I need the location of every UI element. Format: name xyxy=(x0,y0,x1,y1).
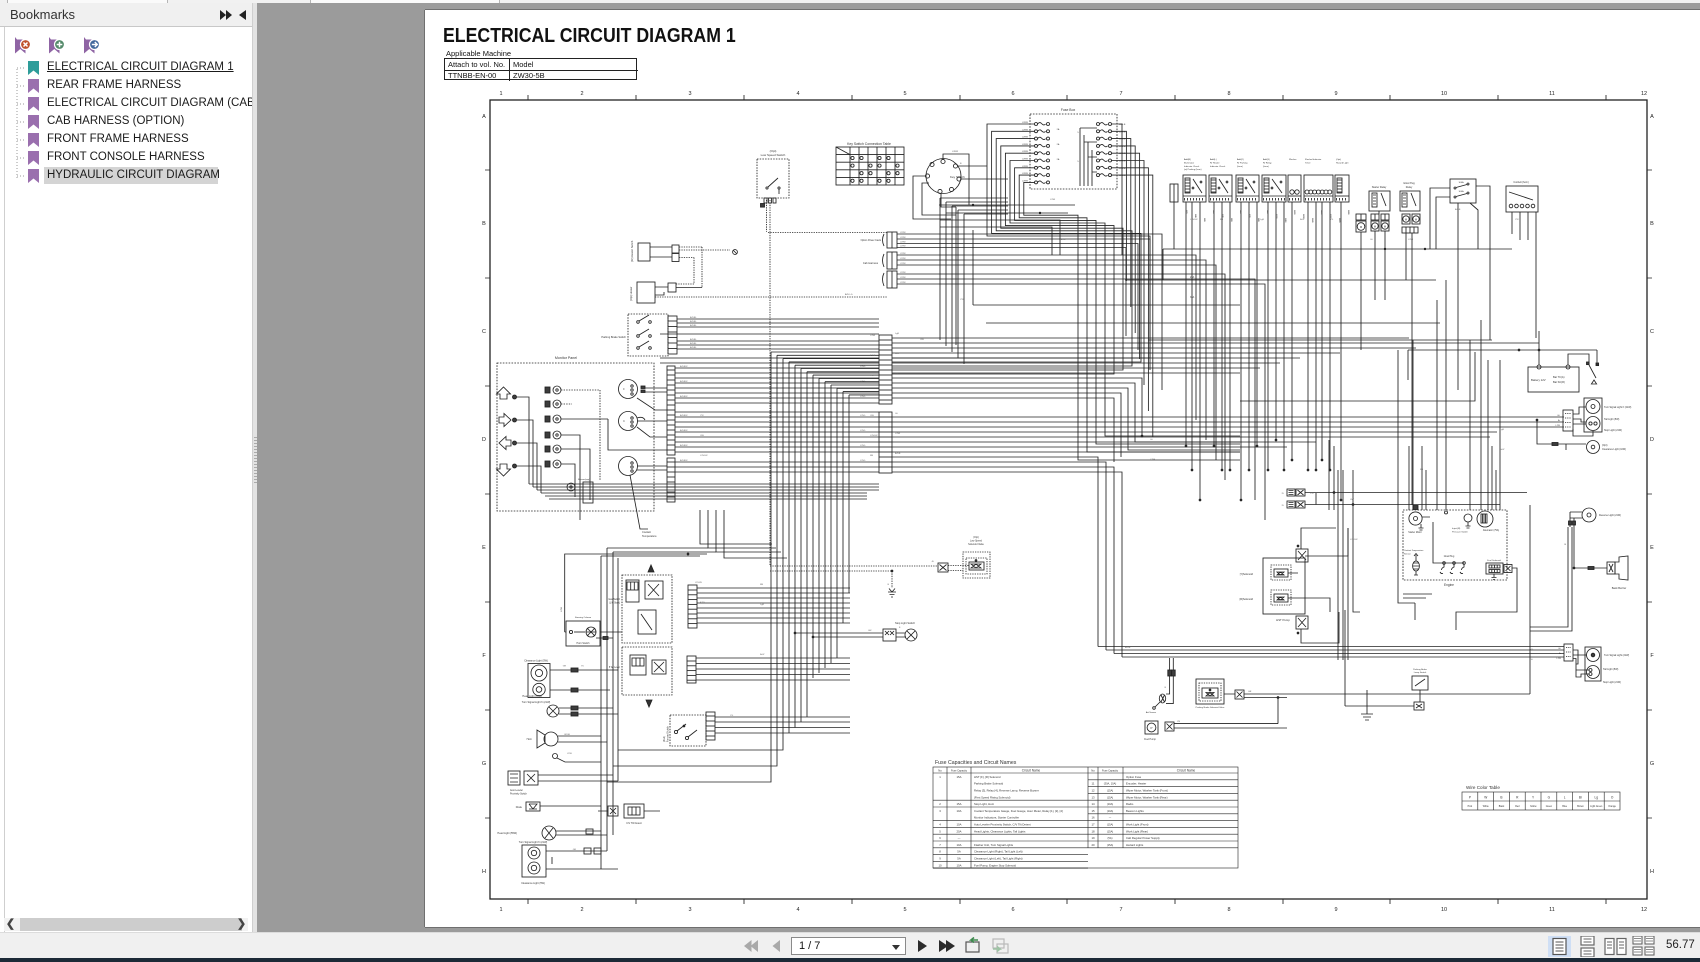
svg-text:Br: Br xyxy=(1558,419,1560,422)
svg-text:Parking Brake Switch: Parking Brake Switch xyxy=(601,335,626,339)
svg-text:10A: 10A xyxy=(957,823,962,827)
svg-text:(15A): (15A) xyxy=(1107,823,1113,827)
switch SW1 (Opt) Low Speed Switch xyxy=(757,149,789,198)
svg-text:Battery 12V: Battery 12V xyxy=(1531,378,1546,382)
auto leveler proximity switch xyxy=(508,771,618,796)
svg-text:(First Speed Rising Solenoid): (First Speed Rising Solenoid) xyxy=(974,795,1010,799)
svg-text:12: 12 xyxy=(1641,91,1647,97)
frame ruler labels xyxy=(482,91,1654,913)
svg-text:A25B: A25B xyxy=(1125,646,1131,649)
svg-text:H: H xyxy=(1650,869,1654,875)
ground G xyxy=(1361,690,1373,720)
svg-text:F: F xyxy=(1650,653,1654,659)
svg-text:(Opt): (Opt) xyxy=(1602,444,1608,447)
svg-text:Encoder, Heater: Encoder, Heater xyxy=(1126,782,1146,786)
svg-text:A25BL: A25BL xyxy=(690,324,697,327)
svg-text:Glow Plug: Glow Plug xyxy=(1403,182,1415,185)
svg-text:Back Buzzer: Back Buzzer xyxy=(1612,586,1627,590)
svg-text:Add(L): Add(L) xyxy=(1210,158,1217,161)
svg-text:LgR: LgR xyxy=(895,333,899,335)
rear combination lamp box xyxy=(1573,398,1631,436)
monitor hour meter xyxy=(619,457,638,476)
svg-text:Green: Green xyxy=(1546,805,1553,808)
wires monitor strips to harness xyxy=(675,365,879,472)
wire labels under relays xyxy=(1185,210,1350,223)
svg-text:E: E xyxy=(482,545,486,551)
svg-text:LgR: LgR xyxy=(1260,219,1264,221)
solenoid F HST xyxy=(1240,590,1291,605)
svg-text:Wire Color Table: Wire Color Table xyxy=(1466,785,1500,790)
svg-text:Parking Brake: Parking Brake xyxy=(1413,668,1428,671)
svg-text:(5A): (5A) xyxy=(1108,836,1113,840)
svg-text:2: 2 xyxy=(580,907,583,913)
parking brake switch SW3 xyxy=(601,314,677,356)
svg-text:White: White xyxy=(1483,805,1490,808)
svg-text:(30A, 10A): (30A, 10A) xyxy=(1104,782,1117,786)
svg-text:7: 7 xyxy=(939,843,941,847)
svg-text:Fuse Capacities and Circuit Na: Fuse Capacities and Circuit Names xyxy=(935,760,1017,766)
svg-text:YG: YG xyxy=(1330,219,1333,221)
svg-text:Cab Harness: Cab Harness xyxy=(863,261,879,265)
svg-text:15: 15 xyxy=(1091,809,1095,813)
svg-text:9: 9 xyxy=(1334,91,1337,97)
svg-text:L25GW: L25GW xyxy=(1190,219,1198,221)
svg-text:3: 3 xyxy=(939,809,941,813)
wires into engine xyxy=(1398,280,1500,620)
forward switch (4wd) xyxy=(664,715,706,746)
svg-text:L: L xyxy=(1564,796,1566,800)
solenoid valve low speed (opt) xyxy=(770,536,990,578)
svg-text:A25B: A25B xyxy=(1455,208,1461,211)
svg-text:(15A): (15A) xyxy=(1107,843,1113,847)
monitor arrow indicators xyxy=(497,387,517,476)
wires fuse box right staircase xyxy=(1112,124,1153,437)
relay R1 Add(R) xyxy=(1183,158,1206,202)
svg-text:M: M xyxy=(1374,225,1376,229)
svg-text:3: 3 xyxy=(688,91,691,97)
svg-text:Bat TC(A): Bat TC(A) xyxy=(1553,375,1565,379)
vertical bundle right of HST xyxy=(1329,440,1360,660)
svg-text:Low Speed Switch: Low Speed Switch xyxy=(761,153,786,157)
svg-text:16: 16 xyxy=(1091,816,1095,820)
svg-text:5: 5 xyxy=(939,829,941,833)
svg-text:B: B xyxy=(482,221,486,227)
lamp reverse light (21W) xyxy=(1565,508,1622,568)
svg-text:A24B: A24B xyxy=(1221,214,1224,218)
C/V tilt detent xyxy=(598,804,660,825)
svg-text:Head Lights, Clearance Lights,: Head Lights, Clearance Lights, Tail Ligh… xyxy=(974,829,1026,833)
svg-text:A217B: A217B xyxy=(1338,218,1341,223)
harness connector strip CN-A xyxy=(879,335,892,404)
wires battery bus xyxy=(1408,331,1597,380)
svg-text:Hazard Lights: Hazard Lights xyxy=(1126,843,1144,847)
svg-text:L25R: L25R xyxy=(1408,239,1414,241)
back buzzer BZ1 xyxy=(1573,556,1628,590)
svg-text:(horn): (horn) xyxy=(1263,165,1269,168)
svg-text:YG: YG xyxy=(730,715,733,717)
engine assembly xyxy=(1403,510,1507,587)
svg-text:2: 2 xyxy=(939,802,941,806)
relay R2 Add(L) xyxy=(1209,158,1232,202)
wire bundle main ring (monitor harness) xyxy=(607,352,879,782)
alternator G1 xyxy=(1477,511,1499,532)
svg-text:(Opt) Heater: (Opt) Heater xyxy=(629,286,633,301)
svg-text:20A: 20A xyxy=(957,829,962,833)
starter motor M4 xyxy=(1408,506,1430,535)
parking brake solenoid valve xyxy=(1196,679,1530,709)
svg-text:Engine: Engine xyxy=(1444,583,1454,587)
svg-text:Turn Signal Light fr (21W): Turn Signal Light fr (21W) xyxy=(1604,406,1631,409)
fuse box internal bus xyxy=(1080,128,1097,186)
svg-text:GL: GL xyxy=(1150,439,1154,441)
wires monitor arrows xyxy=(516,397,541,493)
glow plugs xyxy=(1433,522,1465,574)
svg-text:L25GW: L25GW xyxy=(700,455,708,457)
svg-text:Turn Signal Light fr (21W): Turn Signal Light fr (21W) xyxy=(522,701,551,704)
svg-text:A25BW: A25BW xyxy=(680,444,688,447)
svg-text:M: M xyxy=(1384,225,1386,229)
connector strip turn signal xyxy=(688,585,697,628)
svg-text:Clearance Light (Left), Tail L: Clearance Light (Left), Tail Light (Righ… xyxy=(974,857,1023,861)
svg-text:A215B: A215B xyxy=(1320,210,1323,215)
svg-text:10A: 10A xyxy=(957,843,962,847)
wire bundle monitor lower drops xyxy=(601,510,787,558)
svg-text:D: D xyxy=(482,437,486,443)
svg-text:GW: GW xyxy=(868,630,872,632)
svg-text:11: 11 xyxy=(1549,91,1555,97)
bus wire y249 xyxy=(1163,248,1512,280)
lamp turn signal bottom xyxy=(519,841,618,885)
wires turn signal strip xyxy=(695,582,850,623)
relay R7 (Opt) xyxy=(1335,158,1349,202)
svg-text:100A: 100A xyxy=(1458,181,1464,184)
svg-text:G: G xyxy=(1650,761,1654,767)
svg-text:F: F xyxy=(623,388,625,391)
svg-text:Relay [3], Relay [4], Reverse: Relay [3], Relay [4], Reverse Lamp, Reve… xyxy=(974,789,1039,793)
lamp head light (55W) bottom xyxy=(497,826,607,840)
svg-text:Head Light (55W): Head Light (55W) xyxy=(497,832,517,835)
svg-text:Add(3): Add(3) xyxy=(1263,158,1270,161)
combination relay block (Conbelt) xyxy=(1506,181,1538,338)
svg-text:A21B: A21B xyxy=(1194,214,1197,218)
svg-text:Glow Plug: Glow Plug xyxy=(1444,556,1455,558)
svg-text:B: B xyxy=(899,627,901,629)
svg-text:Hazard Light: Hazard Light xyxy=(1336,161,1349,164)
diode D1 xyxy=(516,802,601,811)
svg-text:A210B: A210B xyxy=(1275,214,1278,219)
wires cab harness to right xyxy=(897,232,1265,520)
svg-text:L2RW: L2RW xyxy=(900,272,906,274)
svg-text:A23B: A23B xyxy=(1212,210,1215,214)
fuel pump P1 xyxy=(1144,698,1287,742)
svg-text:GL: GL xyxy=(895,413,899,415)
wires fuse box left nest xyxy=(892,124,1240,460)
svg-text:(15A): (15A) xyxy=(1107,789,1113,793)
svg-text:Coolant Temperature Gauge, Fue: Coolant Temperature Gauge, Fuel Gauge, H… xyxy=(974,809,1063,813)
svg-text:A25B: A25B xyxy=(895,452,901,455)
wires from key switch xyxy=(913,151,1008,345)
svg-text:6: 6 xyxy=(939,836,941,840)
horn H2 xyxy=(527,730,607,748)
svg-text:Pink: Pink xyxy=(1468,806,1473,808)
svg-text:11: 11 xyxy=(1092,782,1095,786)
svg-text:Monitor Panel: Monitor Panel xyxy=(555,356,577,360)
harness connector strip CN-B xyxy=(879,412,892,473)
svg-text:A25BW: A25BW xyxy=(680,395,688,398)
svg-text:2L: 2L xyxy=(1282,505,1285,507)
lamp clearance light opt (10W) xyxy=(1536,419,1626,453)
svg-text:RB: RB xyxy=(1220,219,1224,221)
svg-text:L25G: L25G xyxy=(860,396,866,398)
svg-text:L25G: L25G xyxy=(860,415,866,417)
svg-text:5: 5 xyxy=(903,91,906,97)
svg-text:AirCleaner: AirCleaner xyxy=(1146,711,1157,714)
connector strip forward switch xyxy=(706,712,715,740)
svg-text:YW: YW xyxy=(1515,219,1519,221)
svg-text:F: F xyxy=(482,653,486,659)
wire from SW1 down xyxy=(761,198,888,566)
svg-text:Rr Relay: Rr Relay xyxy=(1263,161,1272,164)
svg-text:L25G: L25G xyxy=(860,445,866,447)
svg-text:Inject(R): Inject(R) xyxy=(1452,527,1461,530)
svg-text:4: 4 xyxy=(796,907,799,913)
svg-text:Red: Red xyxy=(1515,806,1520,808)
svg-text:L2RW: L2RW xyxy=(900,253,906,255)
bus wires right mesh xyxy=(973,230,1492,340)
svg-text:YB: YB xyxy=(1177,721,1180,723)
svg-text:Rr Heater: Rr Heater xyxy=(1210,161,1220,164)
svg-text:H: H xyxy=(482,869,486,875)
ground for solenoid branch xyxy=(770,570,896,597)
svg-text:A25BW: A25BW xyxy=(680,365,688,368)
svg-text:8: 8 xyxy=(939,850,941,854)
svg-text:B: B xyxy=(1165,687,1167,689)
svg-text:GL: GL xyxy=(1370,239,1374,241)
svg-text:2A: 2A xyxy=(1057,143,1060,146)
wires starter/glow relays down xyxy=(1361,211,1412,505)
svg-text:M: M xyxy=(1415,218,1417,222)
svg-text:14: 14 xyxy=(1091,802,1095,806)
svg-text:Radio: Radio xyxy=(1126,802,1134,806)
svg-text:Blue: Blue xyxy=(1562,806,1567,808)
svg-text:6: 6 xyxy=(1011,91,1014,97)
svg-text:5: 5 xyxy=(1077,132,1079,134)
svg-text:4L: 4L xyxy=(932,561,935,563)
svg-text:E: E xyxy=(1650,545,1654,551)
svg-text:Indicator Check: Indicator Check xyxy=(1210,165,1226,168)
heater switch SW2 (Rr) xyxy=(630,240,737,288)
svg-text:Tail Light (5W): Tail Light (5W) xyxy=(1603,668,1618,671)
svg-text:Solenoid Valve: Solenoid Valve xyxy=(968,543,984,546)
svg-text:C: C xyxy=(1650,329,1654,335)
air cleaner sensor xyxy=(1146,658,1175,714)
svg-text:Illuminator: Illuminator xyxy=(1184,161,1194,164)
svg-text:2L: 2L xyxy=(1282,493,1285,495)
svg-text:10A: 10A xyxy=(957,809,962,813)
svg-text:B: B xyxy=(1565,544,1567,546)
HST pump assembly xyxy=(1263,558,1305,622)
flasher symbol xyxy=(553,753,602,762)
svg-text:L2W: L2W xyxy=(1557,658,1562,660)
rear combination lamp lower box xyxy=(1573,647,1629,684)
connector strip monitor CN-M2 xyxy=(667,458,675,502)
svg-text:L25B: L25B xyxy=(561,606,563,612)
svg-text:---: --- xyxy=(1109,817,1112,820)
monitor indicator lamps xyxy=(545,386,608,520)
svg-text:Timer: Timer xyxy=(1305,161,1311,164)
svg-text:A25Y: A25Y xyxy=(700,601,706,604)
svg-text:Starter Motor: Starter Motor xyxy=(1408,531,1422,534)
solenoid connector pair xyxy=(1282,489,1527,508)
horn switch SW5 xyxy=(561,553,707,646)
svg-text:L25R: L25R xyxy=(870,335,876,337)
svg-text:A25B: A25B xyxy=(870,354,876,357)
svg-text:Wiper Motor, Washer Tank (Rear: Wiper Motor, Washer Tank (Rear) xyxy=(1126,795,1168,799)
svg-text:10: 10 xyxy=(1441,907,1447,913)
svg-text:1: 1 xyxy=(499,907,502,913)
svg-text:Proximity Switch: Proximity Switch xyxy=(510,793,528,796)
wire trunk left lights xyxy=(601,548,618,869)
svg-text:Key Switch: Key Switch xyxy=(950,175,965,179)
svg-text:L2RW: L2RW xyxy=(900,258,906,260)
svg-text:A214B: A214B xyxy=(1311,218,1314,223)
svg-text:30A: 30A xyxy=(1190,296,1195,299)
svg-text:L25GW: L25GW xyxy=(870,435,878,437)
washer motors M2 xyxy=(1371,214,1389,231)
fuel solenoid xyxy=(1456,560,1517,630)
svg-text:A25BW: A25BW xyxy=(680,414,688,417)
battery B1 xyxy=(1528,365,1579,392)
svg-text:A25BL: A25BL xyxy=(690,346,697,349)
parking brake lamp switch xyxy=(1345,610,1428,710)
svg-text:Fuse Capacity: Fuse Capacity xyxy=(951,770,968,773)
monitor fuel gauge xyxy=(619,380,646,399)
svg-text:YG: YG xyxy=(1530,649,1533,651)
svg-text:Lamp Switch: Lamp Switch xyxy=(1414,671,1427,674)
svg-text:HST [F], [R] Solenoid: HST [F], [R] Solenoid xyxy=(974,775,1001,779)
svg-text:Steering Column: Steering Column xyxy=(575,616,592,619)
svg-text:No: No xyxy=(938,769,942,773)
svg-text:BrW: BrW xyxy=(1300,218,1305,221)
svg-text:17: 17 xyxy=(1091,823,1095,827)
relay R6 Flasher/Indicator xyxy=(1304,158,1333,202)
svg-text:L2RW: L2RW xyxy=(900,263,906,265)
svg-text:Head Light (55W): Head Light (55W) xyxy=(522,695,542,698)
svg-text:Monitor Indicators, Starter Co: Monitor Indicators, Starter Controller xyxy=(974,816,1019,820)
svg-text:A: A xyxy=(482,114,486,120)
svg-text:L2RW: L2RW xyxy=(900,237,906,239)
key switch xyxy=(925,159,965,194)
heater H1 (Opt) xyxy=(629,282,887,303)
svg-text:A20B: A20B xyxy=(1185,210,1188,214)
coolant temperature pointer xyxy=(630,475,657,538)
svg-text:(Opt): (Opt) xyxy=(1336,158,1341,161)
svg-text:Add(R): Add(R) xyxy=(1184,158,1191,161)
svg-text:A25BW: A25BW xyxy=(680,459,688,462)
motor M1 wiper xyxy=(1356,214,1366,232)
wire bundle lower horizontals xyxy=(892,417,1564,657)
svg-text:Stop Light (21W): Stop Light (21W) xyxy=(1604,429,1622,432)
svg-text:L25R: L25R xyxy=(1050,199,1056,201)
svg-text:Indicator Check: Indicator Check xyxy=(1184,165,1200,168)
wiper motors M3 under glow relay xyxy=(1402,214,1420,233)
svg-text:A25BL: A25BL xyxy=(690,338,697,341)
svg-text:Beacon Lights: Beacon Lights xyxy=(1126,809,1144,813)
FNR lever switch xyxy=(609,647,672,707)
svg-text:Horn: Horn xyxy=(527,738,533,741)
svg-text:HST Pump: HST Pump xyxy=(1276,618,1290,622)
svg-text:YG: YG xyxy=(895,373,898,375)
battery disconnect switch xyxy=(1568,350,1599,384)
stop light switch SW6 xyxy=(794,621,917,641)
svg-text:M: M xyxy=(1360,225,1363,229)
svg-text:6: 6 xyxy=(1011,907,1014,913)
lamp head light (55W) top xyxy=(522,695,618,717)
svg-text:BrW: BrW xyxy=(1500,448,1505,451)
svg-text:L2RW: L2RW xyxy=(900,246,906,248)
wires monitor bottom bundle xyxy=(529,484,879,499)
svg-text:GRGB: GRGB xyxy=(564,734,571,736)
svg-text:B: B xyxy=(888,584,890,586)
svg-text:5A: 5A xyxy=(957,850,961,854)
svg-text:Circuit Name: Circuit Name xyxy=(1022,769,1041,773)
lamp clearance light front (5W) top xyxy=(522,660,618,705)
svg-text:L25R: L25R xyxy=(895,433,901,435)
svg-text:Bat SC(R): Bat SC(R) xyxy=(1553,380,1565,384)
svg-text:(L/H Stalk): (L/H Stalk) xyxy=(609,602,620,605)
svg-text:100A: 100A xyxy=(1458,190,1464,193)
svg-text:Auto Leveler Proximity Switch,: Auto Leveler Proximity Switch, C/V Tilt … xyxy=(974,823,1031,827)
svg-text:Coolant Temperature: Coolant Temperature xyxy=(1404,549,1424,552)
svg-text:Circuit Name: Circuit Name xyxy=(1177,769,1196,773)
svg-text:5A: 5A xyxy=(957,857,961,861)
svg-text:BrW: BrW xyxy=(760,653,765,656)
svg-text:5: 5 xyxy=(1077,161,1079,163)
svg-text:GW: GW xyxy=(920,339,925,341)
fusible link FL1 xyxy=(1430,179,1490,390)
svg-text:C/V Tilt Detent: C/V Tilt Detent xyxy=(626,822,642,825)
svg-text:12: 12 xyxy=(1091,789,1095,793)
connector CN small before relays xyxy=(1170,184,1178,249)
svg-text:Key Switch Connection Table: Key Switch Connection Table xyxy=(847,142,891,146)
wires to lower lamps xyxy=(1529,505,1531,694)
svg-text:B: B xyxy=(1650,221,1654,227)
svg-text:11: 11 xyxy=(1549,907,1555,913)
svg-text:GR: GR xyxy=(563,666,567,668)
HST connectors xyxy=(1288,528,1348,643)
svg-text:O: O xyxy=(1611,796,1614,800)
svg-text:1: 1 xyxy=(499,91,502,97)
rear lamp cluster lower connector xyxy=(1530,527,1573,661)
svg-text:M: M xyxy=(1405,218,1407,222)
relay R3 Add(2) xyxy=(1236,158,1259,202)
svg-text:5 Wt Lever: 5 Wt Lever xyxy=(609,666,620,669)
key switch connection table xyxy=(836,142,904,185)
svg-text:(15A): (15A) xyxy=(1107,829,1113,833)
svg-text:Stop Light (21W): Stop Light (21W) xyxy=(1603,681,1621,684)
svg-text:L2RW: L2RW xyxy=(900,232,906,234)
svg-text:---: --- xyxy=(958,836,961,840)
svg-text:Flasher Unit, Turn Signal Ligh: Flasher Unit, Turn Signal Lights xyxy=(974,843,1014,847)
svg-text:A211B: A211B xyxy=(1284,218,1287,223)
svg-text:7: 7 xyxy=(1119,907,1122,913)
svg-text:(15A): (15A) xyxy=(1107,795,1113,799)
svg-text:2A: 2A xyxy=(1057,158,1060,161)
connector strip FNR xyxy=(687,656,696,683)
svg-text:3: 3 xyxy=(688,907,691,913)
svg-text:Clearance Light (5W): Clearance Light (5W) xyxy=(521,882,545,885)
svg-text:15A: 15A xyxy=(957,802,962,806)
